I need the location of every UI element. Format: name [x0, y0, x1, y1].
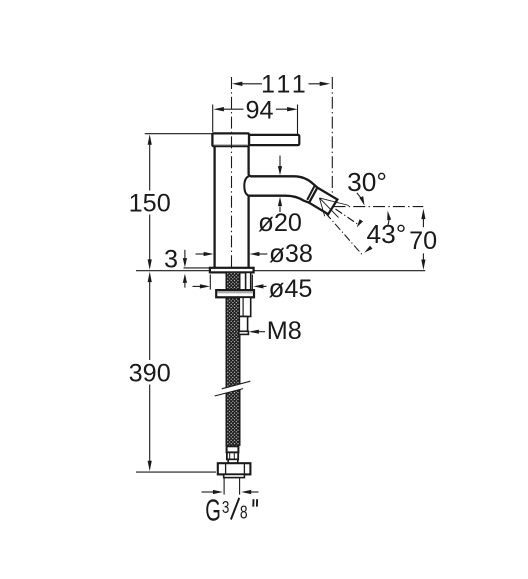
- dim 94 extension lines: [213, 105, 298, 135]
- angle 43deg arc arrow upper: [387, 211, 391, 221]
- hose break symbol: [215, 381, 251, 396]
- threaded stud rod M8: [239, 317, 247, 332]
- svg-text:ø45: ø45: [269, 273, 313, 303]
- handle cap: [212, 133, 249, 146]
- handle lever: [249, 135, 299, 145]
- threaded stud sleeve: [239, 297, 250, 316]
- spray axis horizontal centerline: [334, 206, 424, 208]
- aerator-tip extension centerline: [331, 77, 333, 197]
- svg-text:1: 1: [276, 71, 290, 99]
- spout back cap arc: [244, 176, 248, 195]
- dim 150 top extension line: [145, 133, 212, 135]
- threaded stud foot: [239, 331, 249, 334]
- svg-text:ø38: ø38: [269, 238, 313, 268]
- dim o20 arrows: [279, 156, 281, 167]
- base plate: [210, 268, 254, 273]
- dim 150 line: [149, 139, 151, 265]
- body: [213, 147, 215, 268]
- threaded stud upper segment: [246, 272, 251, 290]
- dim G3/8 extension lines: [224, 478, 240, 495]
- aerator joint ring: [307, 185, 315, 200]
- svg-text:150: 150: [129, 189, 171, 217]
- mounting flange: [216, 290, 254, 297]
- svg-text:390: 390: [129, 360, 171, 388]
- body centerline: [231, 77, 233, 268]
- svg-text:ø20: ø20: [258, 207, 302, 237]
- handle cap inner shading line: [214, 144, 248, 146]
- hose nut stub: [224, 474, 245, 477]
- dim o45 extension lines: [210, 275, 252, 290]
- svg-text:30°: 30°: [347, 167, 387, 197]
- dim G3/8 label: [205, 495, 221, 528]
- aerator: [309, 188, 337, 215]
- hose end crimp collar: [227, 446, 239, 452]
- supply hose hatched column: [227, 272, 239, 446]
- angle 30deg leader and arrow: [357, 193, 361, 198]
- spray fan lines: [319, 198, 349, 218]
- svg-text:1: 1: [292, 71, 306, 99]
- svg-text:70: 70: [409, 227, 437, 255]
- dim 70 line: [422, 213, 424, 265]
- dim 3 arrows: [184, 250, 186, 259]
- svg-text:3: 3: [222, 498, 230, 517]
- dim o45 arrows: [193, 285, 202, 287]
- svg-text:G: G: [205, 495, 221, 528]
- svg-text:M8: M8: [267, 317, 302, 345]
- svg-text:94: 94: [245, 96, 273, 124]
- dim 111 line: [236, 83, 326, 85]
- countertop surface line: [136, 270, 425, 272]
- svg-text:43°: 43°: [367, 219, 407, 249]
- svg-text:1: 1: [261, 71, 275, 99]
- dim o38 arrows: [196, 253, 206, 255]
- svg-text:3: 3: [164, 246, 178, 274]
- svg-text:8: 8: [240, 502, 248, 522]
- label M8 arrow: [251, 331, 265, 333]
- spray ray 43deg: [326, 213, 363, 255]
- dim 390 bottom extension line: [136, 471, 216, 473]
- dim 390 line: [149, 276, 151, 466]
- dim G3/8 arrows: [202, 491, 214, 493]
- dim 94 line: [218, 108, 293, 110]
- hose nut G3/8: [218, 463, 251, 474]
- hose end neck: [228, 459, 238, 463]
- spout: [251, 176, 318, 187]
- spray ray 30deg: [336, 209, 358, 224]
